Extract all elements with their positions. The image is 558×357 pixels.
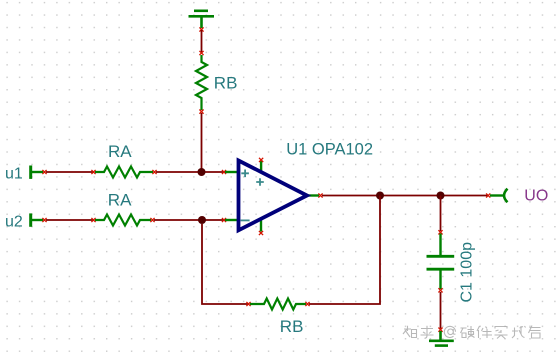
marker + (V+ supply)	[256, 178, 264, 186]
port u2	[29, 213, 46, 226]
resistor RA2 (u2 row)	[91, 215, 154, 226]
君	[529, 326, 541, 339]
resistor RA1 (u1 row)	[91, 167, 156, 178]
ground	[429, 328, 454, 346]
junction: C1 node	[437, 192, 445, 200]
乎	[421, 326, 434, 339]
port u1	[29, 166, 46, 179]
@	[444, 326, 455, 337]
战	[512, 326, 526, 338]
wire op-amp output to UO	[322, 195, 488, 197]
wire RA2 to -input node	[154, 219, 224, 221]
pin -in	[225, 219, 239, 221]
resistor RB (feedback)	[246, 299, 309, 310]
resistor RB (top, vertical)	[196, 51, 207, 114]
junction: -input node	[198, 216, 206, 224]
wire RB feedback to output node	[309, 196, 380, 305]
triangle body	[239, 161, 308, 231]
pin V+	[260, 161, 262, 173]
junction: output/feedback node	[376, 192, 384, 200]
知	[403, 326, 417, 338]
wire RB to +input node	[201, 113, 203, 172]
capacitor C1	[427, 230, 455, 292]
junction: +input node	[198, 168, 206, 176]
wire C1 to ground	[440, 292, 442, 329]
svg-text:RA: RA	[108, 142, 132, 161]
watermark "知乎 @硬件实战君" (vector, font-independent)	[403, 326, 541, 339]
硬	[461, 326, 475, 338]
pin-end marker X (op-amp -in)	[222, 218, 226, 222]
pin-end marker X (power pin)	[199, 27, 203, 31]
power symbol VB (top double-bar)	[189, 11, 215, 28]
件	[477, 326, 492, 338]
svg-text:RB: RB	[214, 74, 238, 93]
port UO	[486, 189, 507, 203]
svg-text:RA: RA	[108, 190, 132, 209]
pin out	[305, 194, 319, 196]
marker + (noninverting input)	[241, 170, 249, 178]
marker - (inverting input)	[241, 219, 250, 221]
wire RA1 to +input node	[156, 171, 224, 173]
wire power symbol to RB	[201, 30, 203, 53]
svg-text:u2: u2	[5, 213, 23, 230]
pin +in	[225, 171, 239, 173]
svg-text:C1 100p: C1 100p	[459, 242, 476, 303]
wire C1 node down to C1	[440, 196, 442, 232]
svg-text:UO: UO	[524, 187, 548, 204]
wire u1 port to RA1	[46, 171, 93, 173]
pin V-	[260, 219, 262, 232]
svg-text:u1: u1	[5, 165, 23, 182]
wire -input node down (feedback)	[202, 224, 248, 304]
svg-text:U1 OPA102: U1 OPA102	[286, 141, 373, 159]
pin-end marker X (op-amp +in)	[222, 170, 226, 174]
svg-text:RB: RB	[280, 317, 304, 336]
实	[495, 327, 508, 339]
wire u2 port to RA2	[46, 219, 93, 221]
op-amp U1 OPA102	[225, 158, 323, 235]
